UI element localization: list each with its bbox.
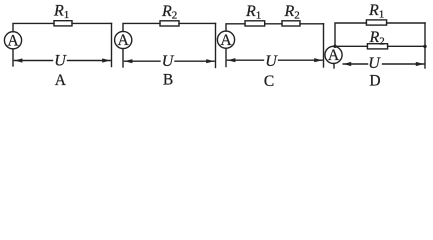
resistor R2 (circuit B) <box>160 21 179 26</box>
wire: D right vertical <box>424 23 426 68</box>
svg-text:B: B <box>163 72 173 89</box>
resistor R2 (circuit D) <box>367 44 387 49</box>
ammeter A (circuit C) <box>217 31 234 48</box>
wire: D left vertical (top branch to junction) <box>335 23 366 46</box>
wire: B top-left segment with corner <box>123 23 160 31</box>
svg-text:A: A <box>55 72 67 89</box>
junction node right (circuit D) <box>423 45 426 48</box>
svg-text:A: A <box>7 33 19 50</box>
wire: B left vertical below ammeter <box>122 49 124 67</box>
svg-text:U: U <box>368 55 381 72</box>
wire: B right vertical <box>215 23 217 67</box>
ammeter A (circuit D) <box>325 46 342 63</box>
wire: A top-right segment <box>72 22 112 24</box>
wire: C segment between resistors <box>265 23 282 25</box>
wire: C right vertical <box>323 24 325 67</box>
junction node left (circuit D) <box>333 45 336 48</box>
wire: A right vertical <box>111 23 113 66</box>
wire: D top-right segment <box>387 22 425 24</box>
wire: D below ammeter <box>333 64 335 69</box>
svg-text:D: D <box>369 73 380 90</box>
wire: D second branch right segment <box>388 45 425 47</box>
ammeter A (circuit A) <box>4 32 21 49</box>
wire: B top-right segment <box>179 22 216 24</box>
svg-text:C: C <box>264 73 274 90</box>
wire: A left vertical below ammeter <box>12 49 14 66</box>
U arrow (circuit D) <box>343 63 424 65</box>
U arrow (circuit B) <box>124 60 214 62</box>
svg-text:U: U <box>54 52 67 69</box>
U arrow (circuit A) <box>14 60 110 62</box>
svg-text:A: A <box>220 32 232 49</box>
ammeter A (circuit B) <box>115 31 132 48</box>
wire: C top-left segment with corner <box>226 24 245 31</box>
U arrow (circuit C) <box>227 59 322 61</box>
svg-text:U: U <box>265 53 278 70</box>
wire: C left vertical below ammeter <box>225 48 227 66</box>
svg-text:A: A <box>118 32 130 49</box>
wire: A top-left segment with corner <box>13 23 54 31</box>
wire: D second branch left segment <box>335 45 367 47</box>
svg-text:A: A <box>328 47 340 64</box>
resistor R1 (circuit C) <box>245 21 265 26</box>
wire: C top-right segment <box>300 23 324 25</box>
svg-text:U: U <box>162 53 175 70</box>
resistor R1 (circuit D) <box>366 20 386 25</box>
resistor R1 (circuit A) <box>54 21 72 26</box>
resistor R2 (circuit C) <box>282 21 300 26</box>
